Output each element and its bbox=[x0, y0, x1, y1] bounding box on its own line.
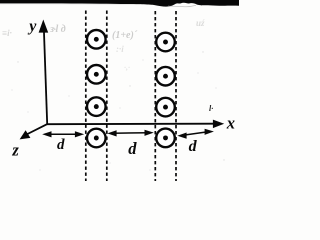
svg-text:(1+е)´: (1+е)´ bbox=[112, 30, 138, 41]
svg-text:d: d bbox=[189, 138, 198, 155]
svg-text:d: d bbox=[57, 137, 65, 153]
svg-text:ɝl д: ɝl д bbox=[49, 24, 66, 35]
svg-text:x: x bbox=[226, 113, 235, 132]
svg-text:·,·: ·,· bbox=[124, 63, 130, 72]
svg-text:иź: иź bbox=[196, 18, 205, 28]
svg-text:≡i·: ≡i· bbox=[2, 28, 12, 38]
svg-text:z: z bbox=[11, 140, 19, 159]
svg-text:l·: l· bbox=[209, 104, 213, 113]
svg-text:y: y bbox=[27, 18, 37, 35]
svg-text::·i: :·i bbox=[116, 44, 124, 54]
svg-text:d: d bbox=[128, 139, 137, 158]
